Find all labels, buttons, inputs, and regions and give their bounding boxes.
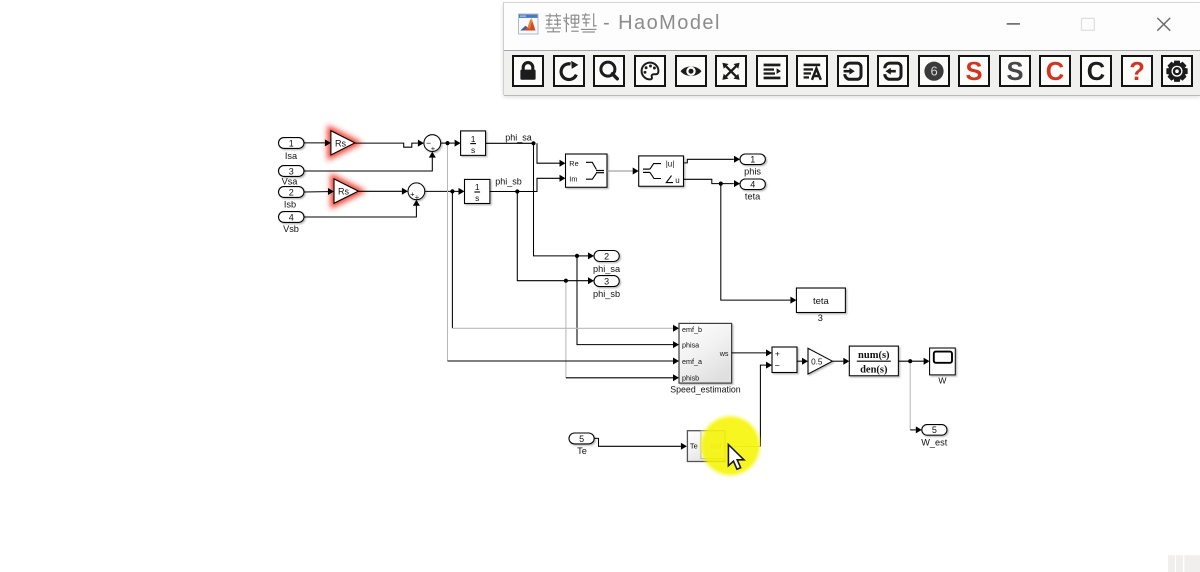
junction dot	[564, 279, 568, 283]
toolbar button 1	[512, 55, 544, 87]
output port 5 W_est	[922, 425, 947, 436]
wire integrator2 out phi_sb to Im	[490, 178, 560, 191]
toolbar button 7	[756, 55, 788, 87]
svg-text:S: S	[966, 59, 983, 83]
window maximize button	[1082, 18, 1095, 30]
svg-text:3: 3	[289, 166, 294, 176]
integrator 1 1/s	[461, 131, 486, 156]
wire phi_sb to phisb input	[566, 377, 673, 379]
svg-text:s: s	[471, 145, 475, 155]
wire sum2 down	[451, 191, 453, 328]
toolbar button 11	[918, 55, 950, 87]
output port 4 teta	[740, 179, 765, 190]
svg-text:Vsa: Vsa	[282, 176, 299, 186]
svg-text:4: 4	[750, 180, 755, 190]
svg-text:4: 4	[289, 212, 294, 222]
wire Rs2 to sum2	[358, 190, 402, 192]
subsystem Te block being clicked	[687, 431, 724, 462]
svg-text:1: 1	[471, 134, 476, 144]
wire phi_sa to phisa input	[577, 256, 673, 345]
sum block 1	[424, 135, 441, 153]
input port 3 Vsa	[279, 166, 305, 177]
wire sum1 down gray	[447, 143, 449, 361]
wire Te port to Te block	[594, 438, 681, 446]
wire to emf_a input	[448, 360, 674, 362]
junction dot	[719, 182, 723, 186]
gain Rs1 red glow	[331, 131, 355, 155]
mouse cursor arrow	[728, 445, 744, 470]
toolbar button 14	[1039, 55, 1071, 87]
toolbar button 5	[675, 55, 707, 87]
scope W	[930, 348, 956, 375]
svg-text:phi_sa: phi_sa	[505, 132, 532, 142]
output port 2 phi_sa	[594, 251, 619, 262]
svg-text:3: 3	[604, 276, 609, 286]
svg-text:ws: ws	[719, 349, 729, 358]
wire ReIm to MagAngle gray	[607, 170, 633, 172]
wire Vsa to sum1 bottom	[304, 157, 432, 171]
input port 4 Vsb	[279, 212, 305, 223]
svg-text:0.5: 0.5	[811, 357, 823, 366]
svg-text:phisa: phisa	[682, 341, 699, 350]
integrator 2 1/s	[465, 179, 490, 203]
svg-text:Rs: Rs	[335, 138, 346, 148]
svg-text:num(s): num(s)	[858, 350, 890, 361]
window close button	[1157, 18, 1170, 31]
toolbar button 10	[877, 55, 909, 87]
input port 5 Te	[569, 433, 594, 444]
svg-text:+: +	[775, 348, 780, 358]
junction dot	[575, 254, 579, 258]
watermark rects bottom right	[1168, 555, 1200, 572]
yellow click highlight circle	[698, 414, 762, 478]
wire Rs1 to sum1 with jog	[355, 143, 418, 147]
sum block 3 square	[772, 347, 797, 373]
matlab app icon	[519, 14, 539, 34]
junction dot	[515, 189, 519, 193]
toolbar button 6	[715, 55, 747, 87]
Complex to Magnitude-Angle block	[639, 156, 684, 186]
wire Isb to Rs2	[304, 191, 328, 193]
junction dot	[531, 141, 535, 145]
wire ws to sum3 plus	[732, 352, 766, 354]
svg-text:Im: Im	[569, 174, 577, 183]
toolbar button 9	[837, 55, 869, 87]
toolbar button 17	[1161, 55, 1193, 87]
wire Isa to Rs1	[304, 142, 325, 144]
gain 0.5	[808, 348, 832, 374]
svg-text:phis: phis	[744, 167, 761, 177]
svg-text:Speed_estimation: Speed_estimation	[670, 385, 741, 395]
svg-text:+: +	[415, 193, 420, 202]
toolbar button 4	[634, 55, 666, 87]
input port 1 Isa	[279, 138, 305, 149]
subsystem Speed_estimation	[679, 323, 732, 383]
svg-text:W_est: W_est	[921, 438, 947, 448]
svg-text:C: C	[1087, 59, 1105, 83]
wire Vsb to sum2 bottom	[304, 206, 416, 217]
wire phi_sa to Re input	[537, 143, 560, 163]
svg-text:5: 5	[579, 434, 584, 444]
svg-text:1: 1	[475, 182, 480, 192]
transfer function num(s)/den(s)	[849, 346, 898, 376]
svg-text:phi_sb: phi_sb	[593, 289, 620, 299]
wire to W_est port	[910, 429, 916, 431]
wire gain05 to tf	[832, 360, 843, 362]
svg-text:?: ?	[1129, 59, 1145, 83]
svg-text:Te: Te	[577, 446, 587, 456]
svg-text:+: +	[431, 144, 436, 153]
wire phi_sb down gray	[565, 281, 567, 378]
svg-text:Rs: Rs	[338, 187, 349, 197]
svg-text:phisb: phisb	[682, 374, 699, 383]
svg-text:Isb: Isb	[284, 199, 296, 209]
wire down to W_est gray	[909, 361, 911, 430]
junction dot	[445, 141, 449, 145]
svg-text:emf_b: emf_b	[682, 325, 702, 334]
svg-text:phi_sb: phi_sb	[495, 176, 522, 186]
svg-text:Isa: Isa	[285, 151, 298, 161]
svg-text:Vsb: Vsb	[283, 224, 299, 234]
wire phi_sa down to out2	[534, 143, 578, 256]
junction dot	[908, 359, 912, 363]
toolbar button 16	[1121, 55, 1153, 87]
svg-text:1: 1	[750, 155, 755, 165]
wire Te block out gray	[725, 446, 761, 448]
toolbar button 8	[796, 55, 828, 87]
svg-text:2: 2	[289, 187, 294, 197]
wire teta branch to goto	[721, 184, 791, 301]
wire up to sum3 minus	[760, 365, 766, 446]
svg-text:W: W	[938, 376, 946, 386]
svg-text:−: −	[775, 360, 780, 370]
svg-text:2: 2	[604, 251, 609, 261]
svg-text:S: S	[1006, 59, 1023, 83]
svg-text:5: 5	[932, 425, 937, 435]
toolbar button 15	[1080, 55, 1112, 87]
floating toolbar window HaoModel	[503, 2, 1200, 95]
svg-text:s: s	[475, 193, 479, 203]
wire sum2 to integrator2	[425, 190, 459, 192]
junction dot	[450, 189, 454, 193]
wire magangle out2 to teta	[684, 179, 734, 183]
svg-text:teta: teta	[745, 192, 761, 202]
output port 3 phi_sb	[594, 276, 619, 287]
wire to port phi_sa	[577, 255, 588, 257]
svg-text:C: C	[1046, 59, 1064, 83]
wire integrator1 out phi_sa	[486, 142, 534, 144]
output port 1 phis	[740, 154, 765, 165]
gain Rs2 red glow	[334, 179, 358, 203]
svg-text:den(s): den(s)	[860, 365, 888, 376]
svg-text:1: 1	[289, 138, 294, 148]
svg-text:emf_a: emf_a	[682, 357, 702, 366]
svg-text:|u|: |u|	[666, 160, 675, 169]
goto tag teta	[796, 288, 845, 313]
wire tf to scope	[898, 360, 923, 362]
wire sum3 to gain05	[797, 360, 802, 362]
wire to emf_b input gray	[452, 327, 673, 329]
wire phi_sb down to out3	[517, 192, 588, 281]
input port 2 Isb	[279, 187, 305, 198]
wire magangle out1 to phis	[684, 159, 734, 163]
Real-Imag to Complex block	[566, 154, 608, 187]
toolbar button 2	[553, 55, 585, 87]
toolbar button 12	[958, 55, 990, 87]
svg-text:u: u	[675, 176, 679, 185]
window minimize button	[1007, 23, 1020, 25]
toolbar button 13	[999, 55, 1031, 87]
toolbar button 3	[593, 55, 625, 87]
svg-text:6: 6	[930, 64, 937, 79]
svg-text:Te: Te	[690, 441, 698, 450]
fake CJK title chars	[546, 13, 597, 32]
svg-text:teta: teta	[813, 296, 830, 307]
svg-text:phi_sa: phi_sa	[593, 264, 621, 274]
svg-text:3: 3	[818, 313, 823, 323]
svg-text:Re: Re	[569, 159, 578, 168]
wire sum1 to integrator1	[441, 142, 455, 144]
sum block 2	[408, 183, 425, 202]
